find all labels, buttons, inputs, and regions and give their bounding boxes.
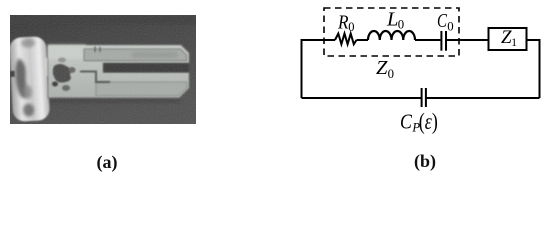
electrode tick marks near base bbox=[95, 47, 100, 53]
bottom prong bright rim bbox=[96, 80, 187, 82]
grain overlay bbox=[10, 15, 196, 124]
svg-text:1: 1 bbox=[511, 37, 517, 49]
resistor R0 bbox=[335, 34, 357, 45]
photo background bbox=[8, 15, 196, 124]
wire between L0 and C0 bbox=[415, 39, 440, 41]
wire top-left segment bbox=[302, 39, 336, 41]
solder blobs at base bbox=[52, 58, 76, 92]
impedance box Z1 bbox=[489, 28, 527, 50]
svg-text:C: C bbox=[437, 10, 447, 32]
bright top edge of top prong bbox=[56, 44, 182, 46]
svg-text:Z: Z bbox=[376, 57, 388, 79]
dashed box Z0 bbox=[324, 8, 459, 56]
svg-text:R: R bbox=[337, 12, 349, 34]
svg-text:C: C bbox=[400, 110, 412, 134]
wire Z1 to right corner bbox=[527, 39, 540, 41]
fork gap slot bbox=[104, 64, 189, 73]
svg-text:0: 0 bbox=[398, 18, 404, 32]
inductor L0 bbox=[368, 31, 415, 40]
base electrode step trace bbox=[80, 72, 110, 83]
svg-text:0: 0 bbox=[447, 19, 453, 33]
svg-text:0: 0 bbox=[388, 67, 394, 81]
fork base bright top section bbox=[48, 45, 86, 59]
capacitor CP bbox=[422, 88, 426, 107]
wire left vertical bbox=[301, 39, 303, 98]
tuning fork body (base + two prongs) bbox=[48, 45, 189, 98]
top prong electrode panel bbox=[84, 49, 187, 61]
svg-text:(ε): (ε) bbox=[419, 109, 438, 134]
wire bottom left segment bbox=[302, 97, 422, 99]
svg-text:(a): (a) bbox=[97, 152, 118, 173]
tuning fork metal can disc bbox=[8, 36, 50, 122]
wire right vertical bbox=[539, 39, 541, 98]
bottom prong electrode panel bbox=[96, 82, 187, 96]
wire between R0 and L0 bbox=[357, 39, 369, 41]
wire bottom right segment bbox=[427, 97, 540, 99]
svg-text:0: 0 bbox=[348, 20, 354, 34]
fork mounting joint bbox=[44, 58, 58, 76]
shadow under fork bbox=[50, 99, 180, 103]
wire C0 to Z1 box bbox=[447, 39, 489, 41]
svg-text:L: L bbox=[386, 9, 398, 31]
svg-text:(b): (b) bbox=[414, 151, 436, 172]
top prong dark smudge bbox=[131, 52, 178, 59]
capacitor C0 bbox=[441, 31, 446, 51]
